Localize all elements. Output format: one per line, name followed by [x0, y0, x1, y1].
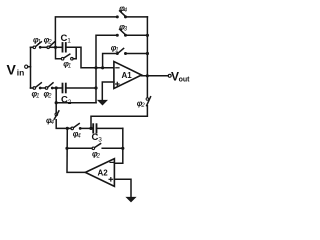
svg-text:4: 4 — [77, 134, 81, 140]
switch phi1 (feedback row 3) — [111, 44, 148, 55]
svg-text:2: 2 — [47, 40, 52, 46]
node N2 junction — [55, 87, 58, 90]
svg-text:A1: A1 — [122, 71, 133, 80]
svg-text:2: 2 — [47, 94, 52, 100]
svg-text:in: in — [17, 68, 25, 78]
ground at A1 non-inverting input — [98, 82, 114, 105]
wire riser N1 to row1 — [55, 17, 117, 47]
svg-text:1: 1 — [36, 94, 39, 100]
wire right vertical bus — [146, 17, 149, 98]
wire bottom branch — [31, 87, 63, 89]
svg-text:1: 1 — [68, 64, 71, 70]
op-amp A1 — [114, 62, 142, 89]
node junction dots on inverting input wire — [95, 67, 114, 70]
svg-text:4: 4 — [51, 120, 55, 126]
wire row3 left riser — [103, 54, 117, 68]
capacitor C2 — [61, 84, 97, 106]
svg-text:2: 2 — [140, 103, 145, 109]
ground at A2 non-inverting input — [114, 179, 135, 202]
wire Vin vertical bus — [30, 47, 32, 88]
capacitor C1 — [61, 33, 72, 52]
switch phi2 (parallel with C3) — [66, 144, 123, 160]
svg-text:A2: A2 — [98, 169, 109, 178]
switch phi2 (Vout to lower section) — [91, 97, 151, 129]
node C3 top-loop junction — [90, 127, 93, 130]
wire C3 right down to A2 inverting input — [114, 128, 124, 163]
wire C1 to inverting input — [66, 47, 96, 68]
node A2 output junction — [66, 127, 71, 130]
svg-text:3: 3 — [98, 137, 102, 144]
svg-text:4: 4 — [124, 8, 128, 14]
switch phi1 (top branch) — [33, 36, 41, 49]
switch phi2 (bottom branch) — [44, 83, 54, 100]
switch phi3 (feedback row 2) — [116, 23, 147, 37]
svg-text:1: 1 — [67, 38, 71, 45]
wire N2 bypass to virtual ground — [55, 88, 96, 104]
wire A1 output to Vout — [142, 75, 169, 78]
switch phi4 (series with C3) — [71, 124, 93, 140]
input terminal Vin — [7, 62, 31, 78]
switch phi2 (top branch) — [44, 36, 55, 49]
svg-text:1: 1 — [38, 40, 41, 46]
wire top branch — [31, 46, 48, 48]
wire row2 left riser (phi3 to inverting node) — [96, 35, 117, 102]
op-amp A2 — [85, 159, 114, 187]
svg-text:3: 3 — [124, 27, 128, 33]
output terminal Vout — [168, 69, 190, 83]
svg-text:2: 2 — [96, 154, 101, 160]
switch phi4 (N2 down to summing branch) — [46, 103, 67, 129]
switch phi1 reset parallel with C1 — [56, 47, 77, 69]
wire A2 output feedback vertical — [67, 128, 85, 172]
svg-text:out: out — [179, 77, 191, 84]
svg-text:V: V — [7, 62, 17, 78]
switch phi4 (feedback row 1) — [116, 4, 147, 18]
svg-text:1: 1 — [115, 48, 118, 54]
switch phi1 (bottom branch) — [32, 83, 42, 100]
node N1 junction — [49, 46, 62, 49]
capacitor C3 — [92, 124, 123, 143]
